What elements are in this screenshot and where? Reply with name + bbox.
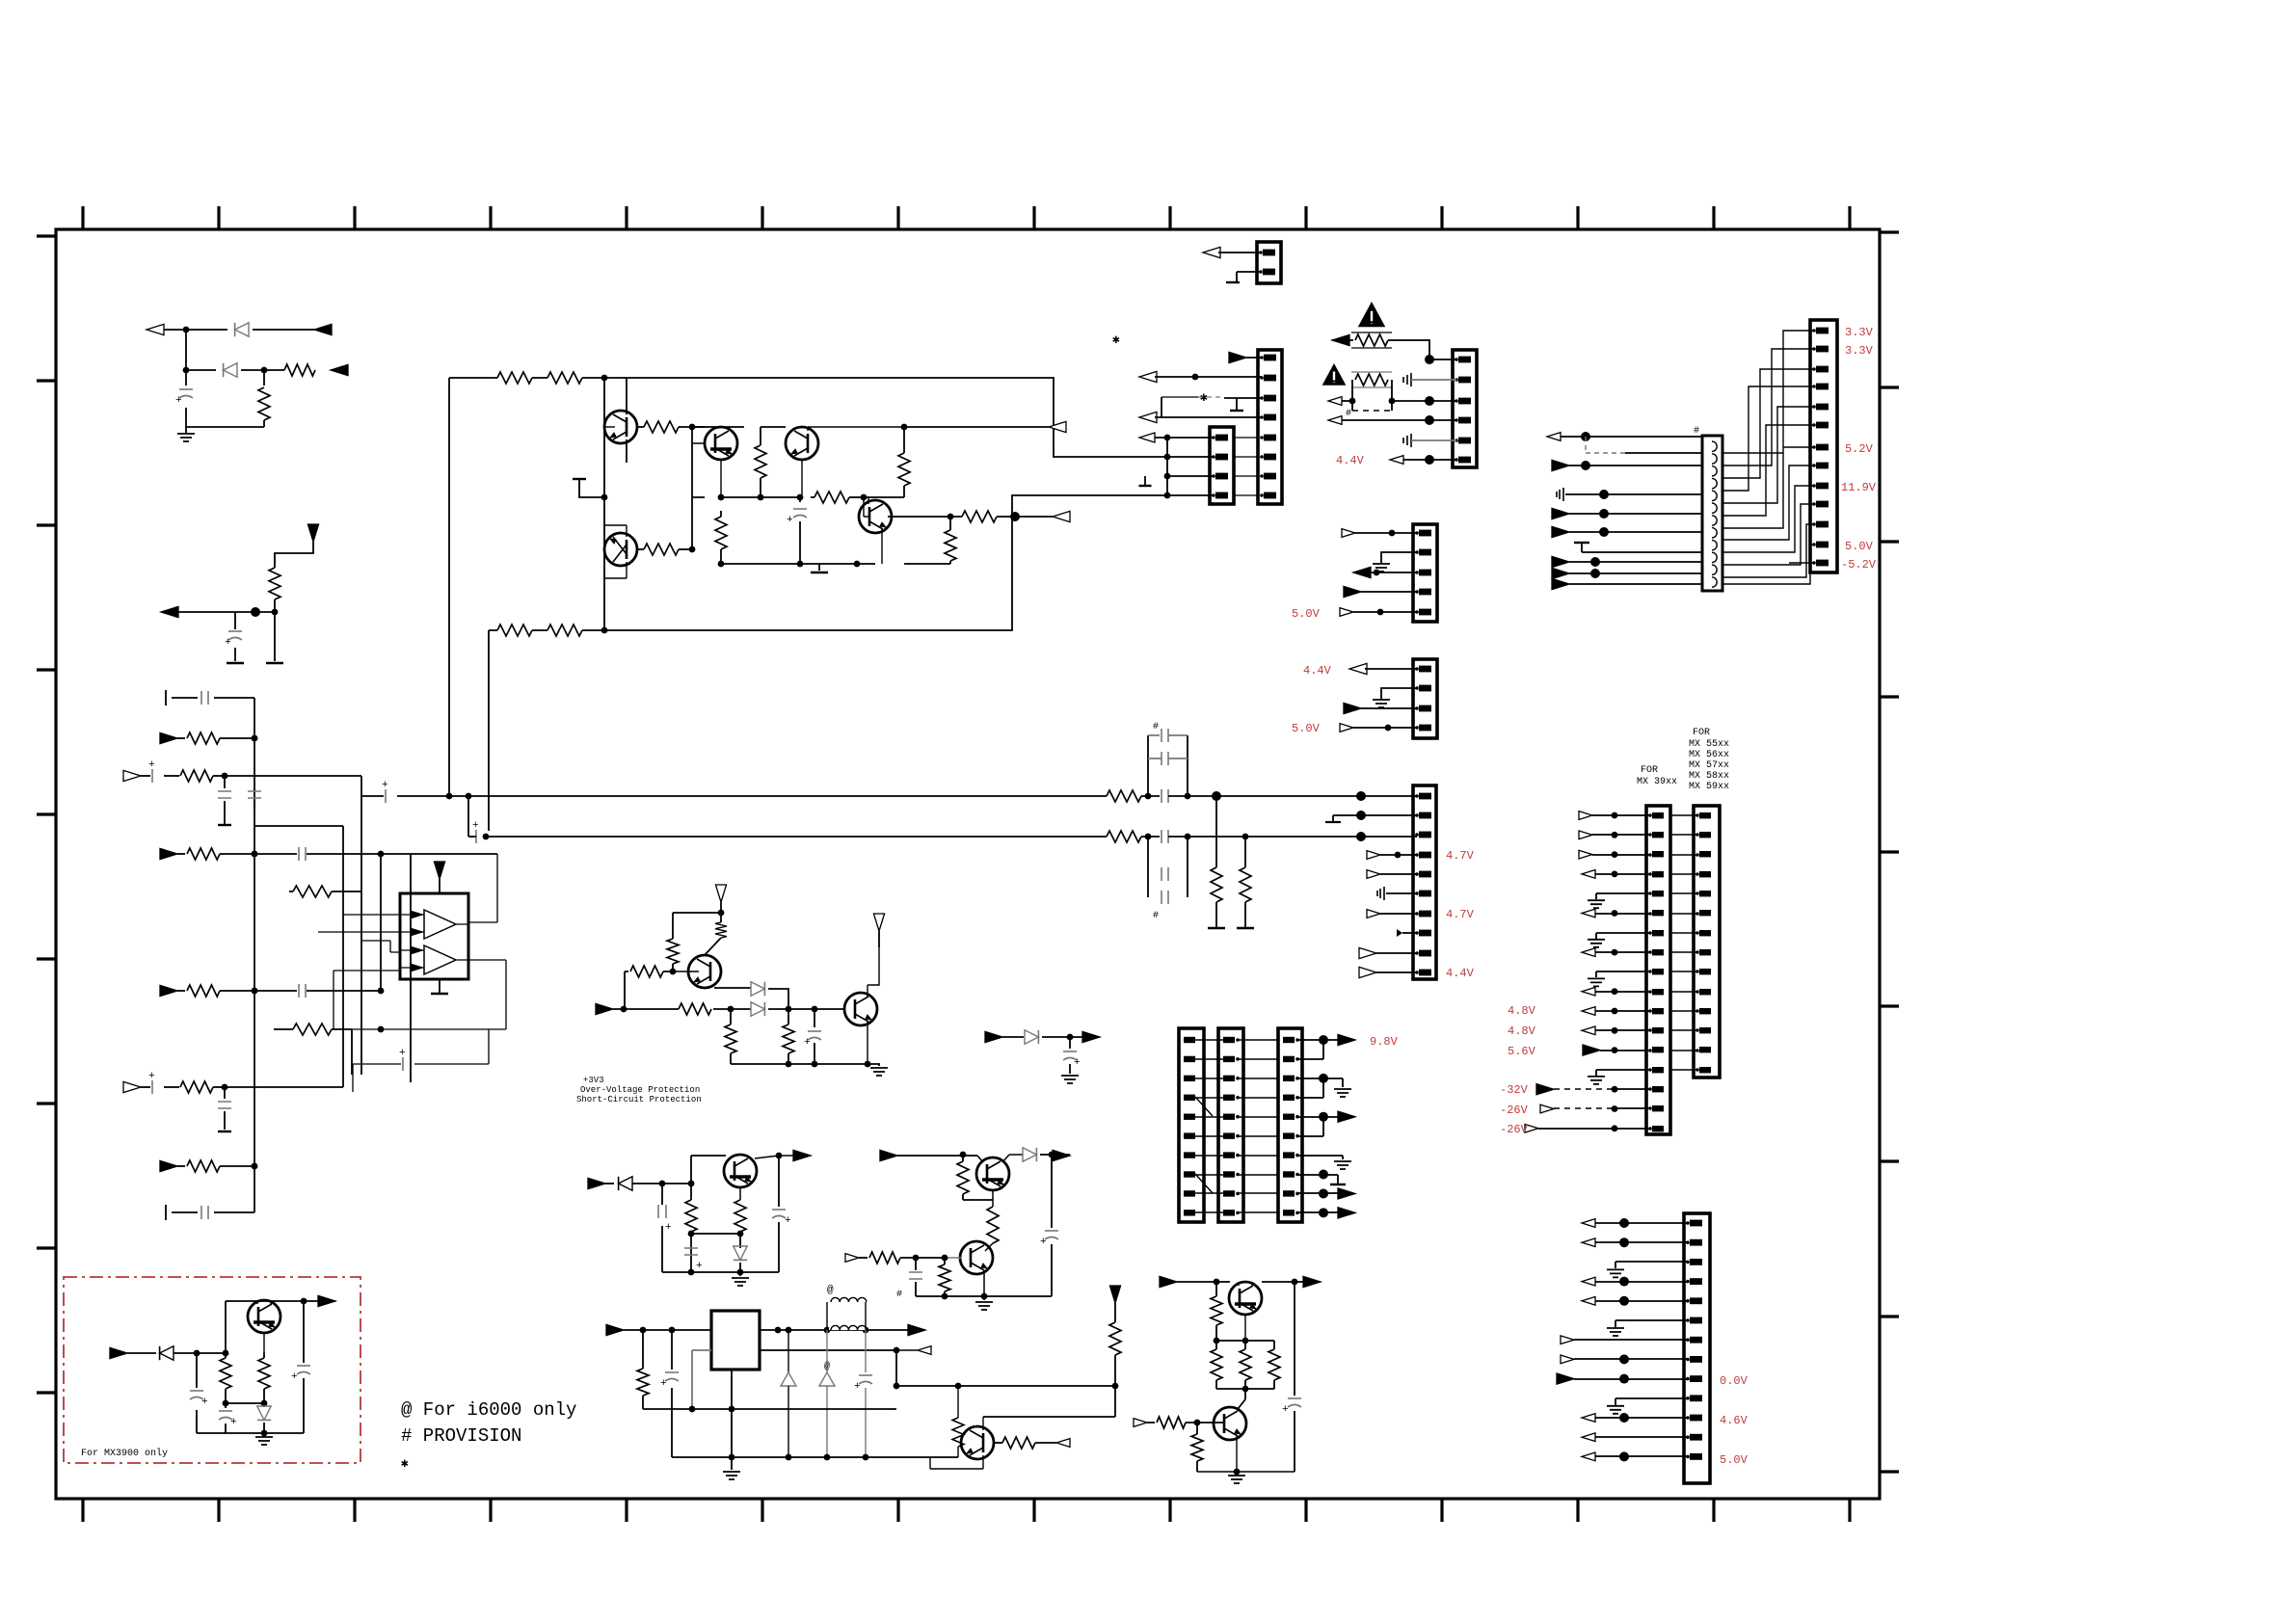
J14 pin 5 bbox=[1686, 1299, 1690, 1303]
J13 pin 13 bbox=[1812, 561, 1816, 565]
arrow bbox=[880, 1150, 897, 1160]
transistor Q5 bbox=[604, 533, 637, 566]
svg-text:+3V3: +3V3 bbox=[583, 1076, 604, 1085]
arrow bbox=[1582, 1452, 1595, 1461]
resistor R12 bbox=[637, 426, 644, 428]
svg-text:For MX3900 only: For MX3900 only bbox=[81, 1448, 168, 1459]
diode D7 bbox=[1023, 1148, 1036, 1161]
J7 pin 2 bbox=[1184, 1056, 1195, 1062]
connector J2 bbox=[1258, 350, 1282, 504]
wire pin8 bbox=[1402, 932, 1417, 934]
J12 pin 7 bbox=[1695, 931, 1699, 935]
svg-text:+: + bbox=[148, 759, 155, 771]
capacitor C8 bbox=[793, 508, 807, 510]
diode D1 bbox=[235, 323, 249, 336]
capacitor C22 bbox=[1069, 1037, 1071, 1049]
frame border bbox=[56, 229, 1880, 1499]
J8 pin 8 bbox=[1223, 1171, 1235, 1177]
wire bbox=[1595, 873, 1650, 875]
ground bbox=[811, 572, 828, 573]
wire bbox=[1595, 1281, 1688, 1283]
J14 pin 1 bbox=[1686, 1221, 1690, 1225]
wire pin2 gnd bbox=[1333, 815, 1417, 821]
svg-text:+: + bbox=[1282, 1404, 1289, 1416]
svg-text:5.0V: 5.0V bbox=[1292, 607, 1321, 621]
J3 pin 1 bbox=[1212, 436, 1215, 439]
wire bbox=[1361, 591, 1417, 593]
arrow bbox=[1340, 608, 1353, 617]
wire bbox=[1403, 459, 1456, 461]
capacitor C5 bbox=[224, 1087, 226, 1099]
J9 pin 7 bbox=[1283, 1152, 1295, 1157]
wire bbox=[1592, 814, 1650, 816]
inductor L1 bbox=[829, 1322, 866, 1330]
J12 pin 8 bbox=[1695, 950, 1699, 954]
resistor R25 vertical bbox=[1244, 837, 1246, 867]
wire bbox=[1392, 400, 1456, 402]
wire vertical x507 bbox=[488, 630, 490, 831]
wire link bbox=[1670, 991, 1697, 993]
arrow bbox=[1579, 811, 1592, 820]
diode D4 bbox=[731, 1008, 751, 1010]
arrow bbox=[908, 1324, 925, 1335]
svg-text:4.6V: 4.6V bbox=[1720, 1414, 1749, 1427]
arrow bbox=[1390, 456, 1403, 465]
capacitor C7 bbox=[254, 990, 297, 992]
capacitor C17 bbox=[814, 1009, 815, 1027]
arrow bbox=[1056, 1439, 1070, 1448]
J11 pin 16 bbox=[1648, 1106, 1652, 1110]
resistor Ry766 bbox=[177, 737, 185, 739]
inductor L2 bypass bbox=[827, 1302, 866, 1330]
ground bbox=[1607, 1406, 1624, 1414]
resistor R20 bbox=[547, 625, 582, 636]
wire link bbox=[1195, 1192, 1223, 1194]
arrow bbox=[1582, 1238, 1595, 1247]
wire bbox=[1353, 727, 1417, 729]
wire bbox=[1148, 735, 1361, 796]
resistor R32 bbox=[625, 971, 628, 972]
arrow bbox=[1525, 1124, 1538, 1132]
svg-text:-5.2V: -5.2V bbox=[1841, 558, 1877, 572]
svg-text:MX 59xx: MX 59xx bbox=[1689, 782, 1729, 792]
wire bbox=[1592, 854, 1650, 856]
wire out7 bbox=[1297, 1156, 1343, 1159]
arrow bbox=[1229, 352, 1246, 362]
J7 pin 7 bbox=[1184, 1152, 1195, 1157]
connector J5 bbox=[1413, 524, 1437, 622]
wire link bbox=[1195, 1058, 1223, 1060]
J9 pin 9 bbox=[1283, 1190, 1295, 1196]
arrow bbox=[1303, 1276, 1321, 1287]
J12 pin 4 bbox=[1695, 872, 1699, 876]
ground bbox=[739, 1272, 741, 1276]
capacitor C24 bbox=[865, 1330, 867, 1372]
wire bbox=[169, 542, 313, 661]
wire Q8 top bbox=[740, 1156, 803, 1200]
input arrow y805 bbox=[123, 770, 141, 781]
junction bbox=[1067, 1034, 1074, 1041]
FL1 coil 11 bbox=[1712, 565, 1717, 574]
J3 pin 2 bbox=[1212, 455, 1215, 459]
J4 pin 4 bbox=[1455, 418, 1458, 422]
J12 pin 14 bbox=[1695, 1068, 1699, 1072]
resistor R16 vertical bbox=[903, 427, 905, 453]
diode D11 bbox=[160, 1346, 174, 1360]
J7 pin 5 bbox=[1184, 1114, 1195, 1120]
svg-text:4.8V: 4.8V bbox=[1508, 1004, 1536, 1018]
svg-text:5.0V: 5.0V bbox=[1720, 1453, 1749, 1467]
resistor R18 vertical bbox=[949, 517, 951, 530]
wire link bbox=[1670, 1029, 1697, 1031]
FL1 coil 3 bbox=[1712, 466, 1717, 476]
resistor R54 vertical bbox=[263, 1352, 265, 1358]
J14 pin 6 bbox=[1686, 1318, 1690, 1322]
capacitor C14 bbox=[1161, 830, 1168, 843]
connector J9 bbox=[1278, 1028, 1302, 1222]
arrow A3 bbox=[161, 606, 178, 617]
wire Q4 out bbox=[888, 516, 950, 518]
transistor Q2 bbox=[705, 427, 737, 460]
wire Q5 bbox=[604, 525, 627, 578]
resistor R38 vertical bbox=[962, 1155, 964, 1161]
transistor Q14 bbox=[248, 1300, 280, 1333]
wire link bbox=[1195, 1097, 1223, 1099]
svg-text:MX 57xx: MX 57xx bbox=[1689, 760, 1729, 771]
wire out8 bbox=[1297, 1175, 1338, 1184]
arrow bbox=[1338, 1111, 1355, 1122]
arrow bbox=[1338, 1208, 1355, 1218]
svg-text:4.8V: 4.8V bbox=[1508, 1024, 1536, 1038]
op-amp output wires bbox=[352, 854, 506, 1029]
junction bbox=[601, 627, 608, 634]
wire out6 bbox=[1297, 1117, 1323, 1136]
arrow open down bbox=[715, 885, 726, 902]
J13 pin 6 bbox=[1812, 423, 1816, 427]
svg-text:+: + bbox=[175, 395, 182, 407]
resistor R14 bbox=[720, 511, 722, 517]
capacitor C20 bbox=[1051, 1155, 1053, 1228]
capacitor C19 bbox=[684, 1248, 698, 1255]
arrow open down bbox=[873, 914, 884, 931]
J4 pin 3 bbox=[1455, 399, 1458, 403]
wire left vertical bbox=[448, 378, 450, 796]
ground bbox=[1373, 564, 1390, 572]
J2 pin 4 bbox=[1260, 415, 1264, 419]
J8 pin 4 bbox=[1223, 1095, 1235, 1101]
wire bbox=[1596, 893, 1650, 899]
resistor R11 bbox=[547, 372, 582, 384]
transistor Q12 bbox=[1229, 1282, 1262, 1315]
wire Q10 bbox=[945, 1257, 961, 1259]
J8 pin 6 bbox=[1223, 1132, 1235, 1138]
arrow bbox=[1561, 1336, 1574, 1344]
resistor Ry1210 bbox=[177, 1165, 185, 1167]
arrow bbox=[1344, 586, 1361, 597]
capacitor Cy805 bbox=[141, 775, 150, 777]
capacitor C28 bbox=[303, 1301, 305, 1363]
J2 pin 6 bbox=[1260, 455, 1264, 459]
ground sym bbox=[1557, 488, 1563, 501]
J9 pin 8 bbox=[1283, 1171, 1295, 1177]
wire long rail 1 bbox=[361, 795, 384, 797]
resistor R43 vertical bbox=[642, 1330, 644, 1369]
op-amp U1 box bbox=[400, 893, 468, 979]
J3 pin 3 bbox=[1212, 474, 1215, 478]
svg-text:+: + bbox=[382, 780, 388, 791]
wire bbox=[1153, 438, 1214, 495]
wire link bbox=[1670, 971, 1697, 972]
arrow bbox=[1344, 703, 1361, 713]
resistor Ry886 bbox=[177, 853, 185, 855]
connector J10 bbox=[1413, 785, 1436, 979]
warning triangle bbox=[1322, 363, 1347, 386]
resistor R31 vertical bbox=[715, 922, 727, 938]
wire link bbox=[1195, 1174, 1223, 1176]
ground bbox=[1061, 1076, 1079, 1083]
arrow bbox=[1547, 433, 1561, 441]
capacitor row y724 bbox=[166, 690, 254, 705]
wire link bbox=[1670, 814, 1697, 816]
resistor R33 bbox=[679, 1003, 711, 1015]
wire left bus bbox=[254, 698, 255, 1212]
svg-text:+: + bbox=[201, 1397, 208, 1408]
svg-text:✱: ✱ bbox=[1112, 333, 1120, 347]
wire regulator gnd bbox=[731, 1370, 733, 1470]
svg-text:+: + bbox=[665, 1222, 672, 1234]
wire bbox=[1561, 436, 1702, 438]
wire bbox=[1595, 1010, 1650, 1012]
arrow bbox=[1582, 1296, 1595, 1305]
J7 pin 6 bbox=[1184, 1132, 1195, 1138]
J11 pin 3 bbox=[1648, 853, 1652, 857]
wire link bbox=[1195, 1039, 1223, 1041]
J11 pin 13 bbox=[1648, 1049, 1652, 1052]
wire main bbox=[613, 1008, 731, 1010]
arrow bbox=[1582, 1026, 1595, 1035]
wire bottom node bbox=[721, 564, 875, 571]
junction bbox=[1145, 793, 1152, 800]
connector J12 bbox=[1694, 806, 1720, 1078]
J9 pin 5 bbox=[1283, 1114, 1295, 1120]
arrow bbox=[1552, 526, 1569, 537]
svg-text:+: + bbox=[1040, 1237, 1047, 1248]
wire out5 bbox=[1297, 1116, 1342, 1118]
svg-text:Short-Circuit Protection: Short-Circuit Protection bbox=[576, 1095, 702, 1104]
wire dashed bbox=[1586, 437, 1625, 453]
wire bbox=[1218, 253, 1261, 281]
power arrow P1 bbox=[307, 524, 318, 542]
wire bbox=[1596, 933, 1650, 939]
J12 pin 12 bbox=[1695, 1028, 1699, 1032]
input arrow y766 bbox=[160, 732, 177, 743]
wire bbox=[1595, 1222, 1688, 1224]
capacitor C11 bbox=[1161, 789, 1168, 803]
J12 pin 10 bbox=[1695, 990, 1699, 994]
J2 pin 3 bbox=[1260, 396, 1264, 400]
transistor Q13 bbox=[1214, 1407, 1246, 1440]
J7 pin 10 bbox=[1184, 1210, 1195, 1215]
arrow bbox=[1134, 1419, 1147, 1427]
ground bbox=[1334, 1161, 1351, 1169]
arrow bbox=[606, 1324, 624, 1335]
FL1 coil 1 bbox=[1712, 441, 1717, 451]
ground bbox=[1237, 927, 1254, 929]
resistor Ry1028 bbox=[177, 990, 185, 992]
junction bbox=[689, 424, 696, 431]
J5 pin 3 bbox=[1415, 571, 1419, 574]
arrow bbox=[1582, 987, 1595, 996]
J11 pin 6 bbox=[1648, 912, 1652, 916]
svg-text:MX 55xx: MX 55xx bbox=[1689, 739, 1729, 750]
regulator U2 bbox=[711, 1311, 760, 1370]
wire bbox=[1569, 572, 1702, 574]
wire box left lead bbox=[692, 1350, 711, 1409]
svg-text:#: # bbox=[1694, 426, 1699, 437]
junction bbox=[183, 327, 190, 333]
pin 2 bbox=[1259, 270, 1263, 274]
svg-text:+: + bbox=[854, 1381, 861, 1393]
wire bbox=[1592, 834, 1650, 836]
arrow bbox=[1082, 1031, 1100, 1042]
wire rail1 bbox=[643, 1408, 896, 1410]
svg-text:4.4V: 4.4V bbox=[1446, 967, 1475, 980]
wire bottom rail bbox=[489, 495, 1167, 630]
J9 pin 4 bbox=[1283, 1095, 1295, 1101]
resistor R36 vertical bbox=[690, 1184, 692, 1200]
svg-text:FOR: FOR bbox=[1693, 728, 1710, 738]
ground bbox=[1226, 281, 1240, 283]
resistor R1 bbox=[284, 364, 315, 376]
transistor Q7 bbox=[844, 993, 877, 1025]
wire Q13 emitter bbox=[1197, 1436, 1295, 1472]
wire Q11 bbox=[930, 1417, 983, 1469]
diode D12 bbox=[263, 1403, 265, 1407]
resistor Ry1128 bbox=[164, 1086, 179, 1088]
FL1 coil 7 bbox=[1712, 516, 1717, 525]
wire bbox=[1569, 465, 1702, 466]
arrow A6 bbox=[1053, 511, 1070, 521]
arrow bbox=[1582, 1219, 1595, 1228]
svg-text:5.6V: 5.6V bbox=[1508, 1045, 1536, 1058]
junction bbox=[1040, 1154, 1070, 1156]
transistor Q6 bbox=[688, 955, 721, 988]
J10 pin 6 bbox=[1415, 891, 1419, 895]
wire bbox=[1595, 1029, 1650, 1031]
svg-text:4.7V: 4.7V bbox=[1446, 908, 1475, 921]
op-amp input wires bbox=[318, 915, 400, 1029]
arrow bbox=[1332, 334, 1349, 345]
resistor R49 vertical bbox=[1244, 1341, 1246, 1349]
wire out10 bbox=[1297, 1211, 1342, 1213]
J8 pin 7 bbox=[1223, 1152, 1235, 1157]
wire aux out bbox=[760, 1349, 896, 1351]
connector J14 bbox=[1684, 1213, 1710, 1483]
J10 pin 2 bbox=[1415, 813, 1419, 817]
wire bbox=[1595, 991, 1650, 993]
wire bbox=[1615, 1320, 1688, 1327]
ground bbox=[1588, 940, 1605, 947]
resistor R40 vertical bbox=[987, 1207, 999, 1243]
J2 pin 7 bbox=[1260, 474, 1264, 478]
wire bbox=[127, 1352, 226, 1354]
J11 pin 12 bbox=[1648, 1028, 1652, 1032]
capacitor C9 bbox=[385, 789, 387, 803]
svg-text:@: @ bbox=[824, 1361, 830, 1372]
arrow bbox=[1353, 567, 1371, 577]
wire bbox=[1148, 837, 1361, 897]
J6 pin 2 bbox=[1415, 686, 1419, 690]
ground bbox=[1582, 544, 1702, 552]
connector J8 bbox=[1218, 1028, 1243, 1222]
filter FL1 bbox=[1702, 436, 1722, 591]
diode D2 bbox=[224, 363, 237, 377]
resistor R45 vertical bbox=[957, 1386, 959, 1418]
connector J13 bbox=[1810, 320, 1837, 572]
FL1 coil 9 bbox=[1712, 540, 1717, 549]
arrow bbox=[1160, 1276, 1177, 1287]
wire bbox=[1365, 668, 1417, 670]
capacitor C23 bbox=[671, 1330, 673, 1370]
svg-text:+: + bbox=[787, 515, 793, 526]
J13 pin 12 bbox=[1812, 543, 1816, 546]
transistor Q11 bbox=[961, 1426, 994, 1459]
arrow bbox=[1367, 851, 1380, 860]
J11 pin 8 bbox=[1648, 950, 1652, 954]
J10 pin 1 bbox=[1415, 794, 1419, 798]
wire base bbox=[673, 971, 699, 972]
svg-text:5.2V: 5.2V bbox=[1845, 442, 1874, 456]
svg-text:MX 39xx: MX 39xx bbox=[1637, 777, 1677, 787]
J13 pin 2 bbox=[1812, 347, 1816, 351]
wire row805 to bus bbox=[225, 776, 361, 1087]
ground bbox=[1334, 1089, 1351, 1097]
svg-text:@ For i6000 only: @ For i6000 only bbox=[401, 1399, 576, 1421]
J13 pin 5 bbox=[1812, 405, 1816, 409]
wire bbox=[1353, 611, 1417, 613]
J14 pin 11 bbox=[1686, 1416, 1690, 1420]
wire bbox=[1376, 952, 1417, 954]
wire bbox=[1155, 397, 1262, 417]
diode D6 bbox=[605, 1183, 614, 1184]
J14 pin 13 bbox=[1686, 1455, 1690, 1459]
wire bbox=[1155, 376, 1262, 378]
wire dashed bbox=[1554, 1088, 1615, 1090]
svg-text:+: + bbox=[291, 1371, 298, 1383]
wire bottom bbox=[731, 1063, 868, 1065]
svg-text:11.9V: 11.9V bbox=[1841, 481, 1877, 494]
arrow bbox=[1342, 529, 1355, 538]
J4 pin 1 bbox=[1455, 358, 1458, 361]
wire out3 bbox=[1297, 1078, 1343, 1087]
J7 pin 9 bbox=[1184, 1190, 1195, 1196]
wire base bus bbox=[603, 378, 605, 630]
connector J4 bbox=[1453, 350, 1477, 467]
wire pin3 bbox=[1361, 836, 1417, 838]
arrow bbox=[1582, 909, 1595, 918]
wire link bbox=[1670, 913, 1697, 915]
J14 pin 3 bbox=[1686, 1261, 1690, 1264]
fusible resistor F1 bbox=[1332, 339, 1353, 341]
J7 pin 8 bbox=[1184, 1171, 1195, 1177]
arrow bbox=[1328, 397, 1342, 406]
wire Q12 bbox=[1239, 1282, 1252, 1341]
wire link bbox=[1670, 854, 1697, 856]
svg-text:+: + bbox=[696, 1261, 703, 1272]
wire out2 bbox=[1297, 1040, 1323, 1059]
resistor R50 vertical bbox=[1268, 1349, 1280, 1380]
arrow bbox=[1557, 1373, 1574, 1384]
